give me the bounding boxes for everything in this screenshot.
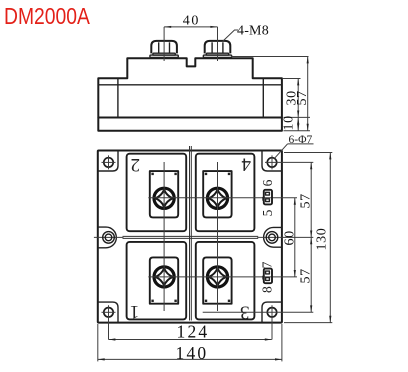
corner tab top-right (262, 151, 282, 172)
label 4-M8 with leader (223, 23, 269, 41)
svg-text:2: 2 (130, 154, 140, 175)
side view body outline (98, 58, 282, 117)
svg-text:3: 3 (240, 301, 250, 322)
side view inner wall left (117, 78, 119, 117)
dim 124 (109, 322, 272, 342)
mounting hole top-right (265, 155, 313, 169)
mounting hole mid-right (266, 232, 278, 244)
center gap horizontal lines (123, 235, 259, 237)
terminal pad 4 (203, 171, 231, 217)
svg-text:60: 60 (283, 230, 298, 245)
side view baseplate (98, 118, 282, 131)
terminal nut right (203, 41, 231, 57)
quadrant block 4 (top-right) (196, 154, 255, 232)
mid tab right (264, 227, 282, 247)
title DM2000A (4, 5, 91, 30)
quadrant block 3 (bottom-right) (196, 242, 255, 320)
svg-text:10: 10 (282, 115, 297, 130)
mounting hole mid-left (103, 232, 115, 244)
mounting hole bottom-left (102, 305, 116, 339)
dim 60 (283, 198, 298, 277)
plan outline (98, 151, 282, 323)
terminal row line top (148, 197, 297, 199)
svg-text:57: 57 (299, 193, 314, 208)
svg-text:130: 130 (315, 228, 330, 251)
quadrant block 2 (top-left) (127, 154, 187, 232)
dim 30 and 10 (282, 79, 311, 131)
terminal pad 2 (150, 171, 178, 217)
terminal nut left (150, 41, 178, 57)
svg-text:DM2000A: DM2000A (4, 5, 91, 30)
svg-text:6: 6 (260, 179, 275, 186)
mounting hole bottom-right (203, 305, 314, 339)
svg-text:4-M8: 4-M8 (237, 23, 269, 38)
svg-text:1: 1 (130, 301, 140, 322)
svg-text:140: 140 (176, 343, 209, 363)
svg-text:57: 57 (299, 268, 314, 283)
quadrant block 1 (bottom-left) (127, 242, 187, 320)
terminal pad 1 (150, 257, 178, 303)
side view lid joint line (98, 84, 282, 86)
svg-text:4: 4 (241, 154, 251, 175)
corner tab bottom-left (98, 302, 118, 323)
svg-text:124: 124 (177, 322, 210, 342)
gate connector top (pins 5,6) (262, 190, 272, 205)
gate connector bottom (pins 7,8) (262, 269, 272, 284)
terminal pad 3 (203, 257, 231, 303)
side view inner wall right (262, 78, 264, 117)
mid row centerline (94, 236, 124, 238)
dim 130 (284, 153, 332, 323)
corner tab top-left (98, 151, 118, 172)
dim 40 (164, 14, 217, 61)
terminal centerlines vertical (163, 162, 165, 311)
dim 140 (98, 324, 282, 363)
dim 57 bottom right (299, 237, 314, 312)
svg-text:7: 7 (259, 261, 274, 268)
dim 57 (side) (231, 57, 310, 131)
svg-text:40: 40 (183, 14, 200, 29)
dim 57 top right (299, 162, 314, 237)
svg-text:8: 8 (259, 286, 274, 293)
mounting hole top-left (102, 155, 116, 169)
svg-text:57: 57 (295, 90, 310, 105)
center gap vertical lines (189, 146, 191, 321)
label 6-phi7 with leader (275, 134, 314, 158)
mid tab left (98, 227, 117, 248)
corner tab bottom-right (262, 302, 282, 323)
terminal row line bottom (148, 276, 297, 278)
svg-text:5: 5 (260, 209, 275, 216)
